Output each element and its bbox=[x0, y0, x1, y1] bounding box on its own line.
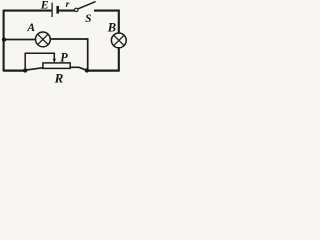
switch S contact circle bbox=[75, 8, 78, 11]
wire battery to switch bbox=[59, 10, 75, 12]
node junction dot for wiper branch bbox=[23, 68, 27, 72]
wire switch to top-right corner and down to lamp B bbox=[94, 11, 119, 34]
wiper P horizontal wire bbox=[25, 52, 55, 54]
battery E long plate bbox=[51, 3, 53, 17]
wiper P arrow shaft bbox=[53, 53, 55, 60]
svg-text:P: P bbox=[60, 51, 68, 65]
lamp B circle bbox=[111, 33, 126, 48]
svg-text:S: S bbox=[85, 13, 91, 25]
wiper P arrowhead bbox=[53, 59, 56, 64]
lamp A cross bbox=[38, 34, 48, 44]
wire left side vertical bbox=[3, 10, 5, 72]
lamp A circle bbox=[36, 32, 51, 47]
lamp B cross bbox=[114, 35, 124, 45]
resistor R body bbox=[43, 63, 70, 69]
node junction dot bottom right of resistor bbox=[85, 68, 89, 72]
wire lamp A to right then down to bottom junction bbox=[50, 39, 87, 71]
svg-text:A: A bbox=[26, 22, 35, 34]
svg-text:E: E bbox=[40, 0, 49, 12]
svg-text:r: r bbox=[66, 0, 70, 10]
wiper P riser wire bbox=[24, 53, 26, 70]
wire resistor right lead to junction bbox=[70, 67, 87, 70]
svg-text:B: B bbox=[107, 21, 116, 35]
wire into lamp A bbox=[4, 39, 36, 41]
battery E short thick plate bbox=[56, 6, 59, 14]
svg-text:R: R bbox=[54, 71, 64, 83]
wire top-left segment bbox=[4, 10, 52, 12]
wire bottom-right segment bbox=[87, 69, 120, 71]
wire bottom-left segment bbox=[4, 69, 26, 71]
wire junction to resistor left lead bbox=[25, 68, 43, 71]
node junction dot on left wire bbox=[2, 37, 6, 41]
switch S lever bbox=[78, 2, 96, 9]
wire lamp B down to bottom-right corner bbox=[118, 48, 120, 71]
